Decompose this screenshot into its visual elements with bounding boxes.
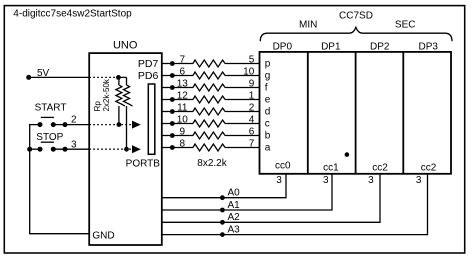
display digit divider 2: [355, 52, 357, 174]
svg-text:9: 9: [249, 78, 255, 89]
junction pin 11: [170, 109, 175, 114]
resistor Rp-a (pull-up left): [118, 77, 120, 85]
resistor Rp-b (pull-up right): [126, 77, 128, 85]
svg-text:13: 13: [177, 78, 189, 89]
svg-text:Rp: Rp: [93, 101, 102, 112]
resistor R5 2.2k: [193, 108, 225, 115]
junction A0: [220, 195, 225, 200]
junction A2: [220, 220, 225, 225]
junction pin 8: [170, 145, 175, 150]
junction pin 9: [170, 133, 175, 138]
svg-text:6: 6: [249, 126, 255, 137]
wire row pin 13 to display: [162, 87, 193, 89]
wire SW2 to UNO: [53, 148, 89, 150]
svg-text:DP2: DP2: [370, 42, 390, 53]
junction Rp-a / START row: [117, 122, 122, 127]
wire net A0: [162, 174, 286, 198]
svg-text:f: f: [265, 83, 268, 94]
switch SW1 actuator bar: [41, 116, 54, 118]
display digit divider 3: [402, 52, 404, 174]
resistor R1 2.2k: [193, 60, 225, 67]
svg-text:g: g: [265, 71, 271, 82]
switch SW2 contacts: [38, 147, 43, 152]
power 5V node: [26, 75, 31, 80]
junction pin 12: [170, 97, 175, 102]
svg-text:10: 10: [243, 66, 255, 77]
svg-text:cc2: cc2: [372, 162, 388, 173]
junction pin 7: [170, 61, 175, 66]
wire row pin 8 to display: [162, 147, 193, 149]
junction pin 10: [170, 121, 175, 126]
wire START dotted inside UNO: [89, 124, 132, 126]
wire row pin 7 to display: [162, 63, 193, 65]
svg-text:DP0: DP0: [273, 42, 293, 53]
svg-text:9: 9: [180, 126, 186, 137]
svg-text:11: 11: [177, 102, 188, 113]
svg-text:7: 7: [249, 138, 255, 149]
svg-text:2x2k-50k: 2x2k-50k: [102, 78, 111, 111]
wire row pin 6 to display: [162, 75, 193, 77]
resistor R7 2.2k: [193, 132, 225, 139]
resistor R4 2.2k: [193, 96, 225, 103]
arrow to PORTB (STOP): [132, 145, 141, 153]
svg-text:3: 3: [368, 175, 374, 186]
MCU U1 UNO box: [89, 53, 162, 245]
wire row pin 10 to display: [162, 123, 193, 125]
svg-text:4: 4: [249, 114, 255, 125]
svg-text:A2: A2: [228, 212, 241, 223]
display CC7SD box: [260, 52, 452, 174]
svg-text:MIN: MIN: [299, 20, 317, 31]
wire rail to SW2: [30, 148, 40, 150]
svg-text:4-digitcc7se4sw2StartStop: 4-digitcc7se4sw2StartStop: [13, 9, 132, 20]
switch SW1 contacts: [38, 122, 43, 127]
wire corner to SW1: [30, 125, 89, 234]
svg-text:GND: GND: [92, 231, 114, 242]
wire 5V to UNO: [29, 76, 89, 78]
svg-text:a: a: [265, 143, 271, 154]
arrow to PORTB (START): [132, 121, 141, 129]
resistor R8 2.2k: [193, 144, 225, 151]
junction A3: [220, 232, 225, 237]
svg-text:2: 2: [249, 102, 255, 113]
svg-text:p: p: [265, 59, 271, 70]
resistor R6 2.2k: [193, 120, 225, 127]
svg-text:STOP: STOP: [36, 132, 63, 143]
svg-text:PORTB: PORTB: [126, 159, 161, 170]
svg-text:A3: A3: [228, 224, 241, 235]
svg-text:DP3: DP3: [418, 42, 438, 53]
svg-text:3: 3: [276, 175, 282, 186]
svg-text:1: 1: [249, 90, 255, 101]
svg-text:10: 10: [177, 114, 189, 125]
wire row pin 12 to display: [162, 99, 193, 101]
svg-text:7: 7: [180, 54, 186, 65]
svg-text:12: 12: [177, 90, 189, 101]
junction pin 6: [170, 73, 175, 78]
svg-text:START: START: [35, 102, 67, 113]
svg-text:8: 8: [180, 138, 186, 149]
svg-text:CC7SD: CC7SD: [339, 11, 373, 22]
svg-text:PD7: PD7: [138, 58, 159, 70]
svg-text:6: 6: [180, 66, 186, 77]
wire STOP dotted inside UNO: [89, 148, 132, 150]
svg-text:c: c: [265, 119, 270, 130]
svg-text:b: b: [265, 131, 271, 142]
junction Rp-b / STOP row: [124, 147, 129, 152]
resistor R2 2.2k: [193, 72, 225, 79]
svg-text:SEC: SEC: [395, 20, 416, 31]
resistor R3 2.2k: [193, 84, 225, 91]
wire row pin 9 to display: [162, 135, 193, 137]
wire Rp top bar: [118, 76, 126, 78]
svg-text:e: e: [265, 95, 271, 106]
svg-text:cc0: cc0: [275, 161, 291, 172]
svg-text:DP1: DP1: [321, 42, 341, 53]
svg-text:3: 3: [71, 139, 77, 150]
wire row pin 11 to display: [162, 111, 193, 113]
svg-text:3: 3: [323, 175, 329, 186]
svg-text:cc2: cc2: [421, 162, 437, 173]
junction 5V/Rp: [116, 75, 121, 80]
switch SW2 actuator bar: [41, 141, 54, 143]
svg-text:d: d: [265, 107, 271, 118]
svg-text:A1: A1: [228, 200, 241, 211]
junction A1: [220, 208, 225, 213]
display digit divider 1: [307, 52, 309, 174]
svg-text:UNO: UNO: [113, 40, 138, 52]
svg-text:PD6: PD6: [138, 70, 159, 82]
svg-text:3: 3: [416, 175, 422, 186]
wire net A3: [162, 174, 428, 235]
junction pin 13: [170, 85, 175, 90]
wire net A1: [162, 174, 332, 210]
svg-text:A0: A0: [228, 188, 241, 199]
connector PORTB: [148, 84, 155, 154]
svg-text:2: 2: [71, 115, 77, 126]
brace over display: [260, 27, 452, 41]
junction STOP / GND rail: [27, 147, 32, 152]
wire net A2: [162, 174, 380, 223]
svg-text:8x2.2k: 8x2.2k: [197, 158, 227, 169]
wire SW1 to UNO: [53, 124, 89, 126]
svg-text:cc1: cc1: [323, 162, 339, 173]
wire 5V dotted inside UNO: [89, 76, 118, 78]
svg-text:5: 5: [249, 54, 255, 65]
decimal point dot: [345, 152, 350, 157]
